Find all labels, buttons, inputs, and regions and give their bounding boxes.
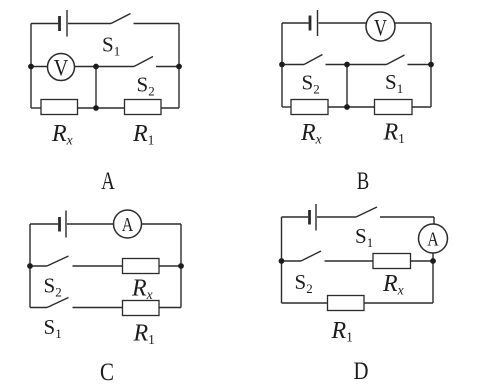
svg-text:R1: R1	[383, 120, 405, 147]
wire C right vertical	[180, 224, 182, 308]
node A left-middle	[28, 64, 34, 70]
ammeter A circle C	[114, 210, 142, 238]
switch S1 blade B	[387, 55, 405, 65]
wire B left vertical	[281, 23, 283, 107]
wire C after S1 to R1	[73, 307, 123, 309]
svg-text:V: V	[54, 56, 69, 81]
node C right-middle	[178, 263, 184, 269]
node A centre-bottom	[93, 105, 99, 111]
wire B after S2 to centre node	[326, 64, 387, 66]
wire C second-row left stub	[30, 265, 47, 267]
voltmeter V circle B	[366, 12, 395, 41]
wire D top-left segment	[282, 216, 309, 218]
resistor R1 A	[125, 100, 162, 115]
svg-text:D: D	[354, 358, 369, 385]
switch S2 blade C	[47, 256, 69, 266]
resistor Rx B	[291, 100, 328, 115]
wire C Rx to right node	[159, 265, 181, 267]
svg-text:V: V	[374, 16, 387, 41]
svg-text:S1: S1	[44, 315, 62, 341]
wire C battery to ammeter	[67, 223, 114, 225]
wire A battery to switch S1	[68, 23, 111, 25]
wire A R1 to right corner	[161, 107, 179, 109]
svg-text:C: C	[100, 359, 114, 386]
wire C after S2 to Rx	[73, 265, 123, 267]
wire A top-left segment	[31, 23, 58, 25]
svg-text:S2: S2	[137, 73, 155, 99]
resistor R1 B	[375, 100, 413, 115]
svg-text:Rx: Rx	[300, 120, 322, 147]
battery D short plate	[308, 210, 311, 225]
wire D battery to switch S1	[317, 216, 356, 218]
wire A left vertical	[30, 24, 32, 109]
wire C third-row left stub	[30, 307, 47, 309]
wire D Rx to right node	[411, 260, 434, 262]
wire D bottom left to R1	[282, 302, 328, 304]
battery B long plate	[317, 10, 319, 36]
battery C long plate	[65, 211, 67, 238]
node C left-middle	[27, 263, 33, 269]
resistor R1 D	[328, 296, 365, 311]
svg-text:R1: R1	[132, 121, 154, 148]
switch S2 blade D	[301, 251, 321, 261]
wire B middle left to switch	[282, 64, 304, 66]
wire D R1 to bottom-right corner	[364, 302, 433, 304]
node B centre-middle	[344, 62, 350, 68]
node A right-middle	[176, 64, 182, 70]
node D left-middle	[279, 258, 285, 264]
battery C short plate	[58, 217, 61, 232]
wire D after S2 to Rx	[325, 260, 374, 262]
node D right-middle	[430, 258, 436, 264]
battery B short plate	[309, 16, 312, 31]
wire D ammeter to right node	[432, 253, 434, 261]
svg-text:S1: S1	[102, 33, 120, 59]
resistor Rx A	[41, 100, 78, 115]
wire B R1 to right corner	[412, 106, 431, 108]
wire C top-left segment	[30, 223, 58, 225]
svg-text:S2: S2	[44, 274, 62, 300]
wire B voltmeter to top-right corner	[395, 22, 432, 24]
wire D middle left to switch S2	[282, 260, 302, 262]
resistor R1 C	[123, 301, 160, 316]
wire A bottom left to Rx	[31, 107, 41, 109]
voltmeter V circle A	[48, 54, 75, 81]
wire B battery to voltmeter	[319, 22, 368, 24]
resistor Rx C	[123, 259, 160, 274]
battery A short plate	[58, 16, 61, 31]
svg-text:R1: R1	[133, 321, 155, 348]
switch S1 blade C	[47, 298, 69, 308]
svg-text:S2: S2	[295, 270, 313, 296]
battery A long plate	[66, 10, 68, 37]
node B right-middle	[428, 62, 434, 68]
svg-text:S2: S2	[302, 71, 320, 97]
svg-text:Rx: Rx	[382, 271, 404, 298]
node B left-middle	[279, 62, 285, 68]
wire A voltmeter to middle node	[75, 66, 135, 68]
wire C R1 to right corner	[159, 307, 181, 309]
svg-text:A: A	[427, 229, 439, 251]
switch S1 blade D	[356, 207, 377, 217]
svg-text:S1: S1	[385, 70, 403, 96]
svg-text:B: B	[357, 168, 370, 195]
wire A middle vertical node to bottom	[95, 67, 97, 109]
node B centre-bottom	[344, 104, 350, 110]
wire A Rx to R1	[78, 107, 125, 109]
wire B centre vertical	[346, 65, 348, 108]
svg-text:Rx: Rx	[131, 276, 153, 303]
wire A right vertical	[178, 24, 180, 109]
wire B right vertical	[430, 23, 432, 107]
wire D after S1 to top-right corner	[380, 216, 434, 218]
battery D long plate	[315, 204, 317, 231]
wire C left vertical	[29, 224, 31, 308]
resistor Rx D	[373, 254, 411, 269]
node A centre-middle	[93, 64, 99, 70]
svg-text:A: A	[101, 168, 115, 195]
switch S2 blade B	[304, 55, 323, 65]
wire C ammeter to top-right corner	[142, 223, 182, 225]
svg-text:Rx: Rx	[51, 121, 73, 148]
wire B after S1 to right	[408, 64, 432, 66]
wire B Rx to R1	[328, 106, 375, 108]
switch S1 blade	[111, 14, 131, 24]
switch S2 blade A	[134, 57, 153, 67]
wire A after S2 to right	[156, 66, 179, 68]
wire D left vertical	[281, 217, 283, 303]
wire D right lower vertical	[432, 261, 434, 303]
wire D top-right down to ammeter	[433, 217, 435, 225]
wire B bottom-left to Rx	[282, 106, 291, 108]
wire A after S1 to top-right corner	[134, 23, 180, 25]
wire B top-left segment	[282, 22, 309, 24]
ammeter A circle D	[419, 224, 448, 253]
svg-text:R1: R1	[331, 318, 353, 345]
wire A middle left to voltmeter	[31, 66, 48, 68]
svg-text:A: A	[122, 214, 134, 236]
svg-text:S1: S1	[355, 224, 373, 250]
